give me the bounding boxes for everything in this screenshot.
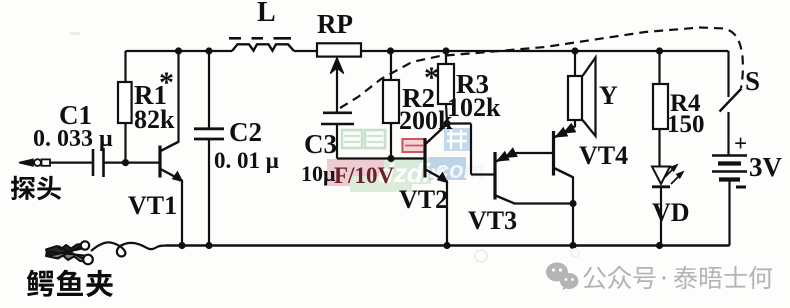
svg-text:0. 01 μ: 0. 01 μ xyxy=(214,148,279,173)
svg-text:RP: RP xyxy=(317,9,353,39)
svg-text:*: * xyxy=(159,66,174,99)
svg-text:F/10V: F/10V xyxy=(334,163,394,188)
svg-text:200k: 200k xyxy=(399,106,453,135)
svg-text:C3: C3 xyxy=(304,129,337,159)
svg-text:+: + xyxy=(734,131,747,156)
svg-text:82k: 82k xyxy=(134,105,175,134)
svg-text:*: * xyxy=(424,61,439,94)
svg-text:VD: VD xyxy=(652,198,690,227)
svg-text:3V: 3V xyxy=(749,152,783,182)
svg-text:VT4: VT4 xyxy=(579,141,628,170)
svg-text:102k: 102k xyxy=(447,93,501,122)
svg-text:150: 150 xyxy=(667,111,705,138)
svg-text:0. 033 μ: 0. 033 μ xyxy=(33,126,113,152)
svg-text:VT2: VT2 xyxy=(399,185,448,214)
svg-text:10μ: 10μ xyxy=(301,161,336,186)
svg-text:Y: Y xyxy=(599,81,618,110)
svg-text:VT1: VT1 xyxy=(128,191,177,220)
svg-text:C2: C2 xyxy=(229,117,262,147)
svg-text:L: L xyxy=(257,0,276,28)
svg-text:VT3: VT3 xyxy=(468,206,517,235)
svg-text:S: S xyxy=(745,66,760,96)
